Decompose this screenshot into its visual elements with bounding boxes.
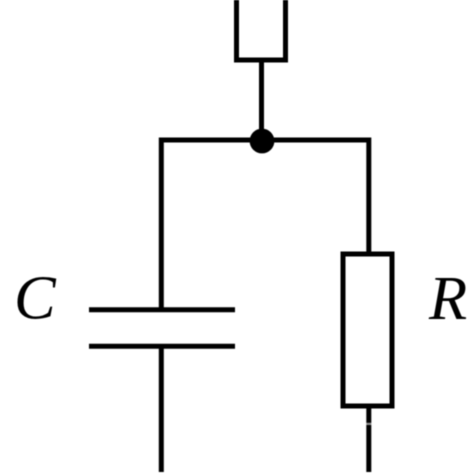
svg-text:C: C [14, 262, 57, 332]
svg-text:R: R [428, 263, 467, 333]
